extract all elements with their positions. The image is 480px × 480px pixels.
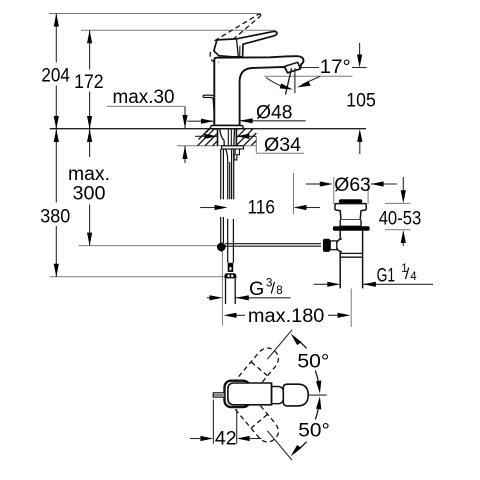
svg-text:40-53: 40-53 (379, 208, 422, 230)
svg-text:50°: 50° (298, 420, 330, 442)
svg-text:116: 116 (248, 197, 276, 219)
svg-text:42: 42 (215, 427, 237, 449)
svg-text:Ø34: Ø34 (264, 134, 301, 156)
svg-text:380: 380 (40, 205, 70, 227)
svg-text:/: / (405, 266, 410, 283)
svg-text:17°: 17° (320, 56, 351, 78)
svg-text:Ø63: Ø63 (334, 174, 371, 196)
svg-text:/: / (271, 280, 276, 297)
svg-text:172: 172 (74, 71, 104, 93)
svg-text:max.180: max.180 (248, 305, 325, 327)
svg-text:50°: 50° (297, 350, 329, 372)
svg-text:4: 4 (410, 271, 417, 283)
svg-text:max.30: max.30 (113, 86, 175, 108)
svg-text:8: 8 (276, 285, 282, 297)
svg-text:max.: max. (68, 163, 110, 185)
svg-text:204: 204 (41, 64, 70, 86)
svg-text:G1: G1 (377, 264, 396, 286)
svg-text:Ø48: Ø48 (256, 101, 293, 123)
svg-text:105: 105 (346, 90, 376, 112)
svg-text:G: G (249, 278, 264, 300)
svg-text:300: 300 (73, 183, 106, 205)
